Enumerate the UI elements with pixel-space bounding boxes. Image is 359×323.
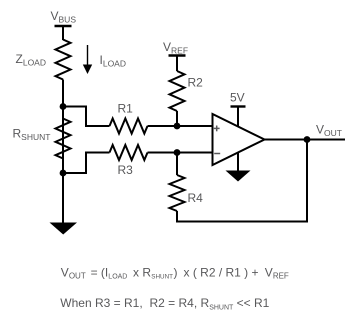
net V_OUT label <box>316 123 342 139</box>
wire feedback R4 to output node <box>177 140 307 222</box>
label 5V <box>230 91 245 105</box>
svg-text:R3: R3 <box>118 163 134 177</box>
net V_REF terminal bar <box>169 54 186 56</box>
wire node B to R3 <box>63 153 110 174</box>
resistor RSHUNT <box>56 119 71 159</box>
op-amp U1 <box>213 114 265 165</box>
label ZLOAD <box>16 52 47 68</box>
wire V_REF to R2 <box>176 56 178 72</box>
ground (op-amp) <box>226 153 251 182</box>
node A (top of RSHUNT) <box>60 103 67 110</box>
wire R3 to op-amp minus input <box>148 152 213 154</box>
formula line 2 <box>60 296 269 311</box>
wire op-amp output <box>265 139 346 141</box>
label R1 <box>118 102 134 116</box>
resistor R2 <box>170 71 185 111</box>
svg-text:VOUT= (ILOADx RSHUNT)x ( R2 /: VOUT= (ILOADx RSHUNT)x ( R2 / R1 ) +VREF <box>61 265 289 280</box>
label R2 <box>188 76 204 90</box>
svg-text:R1: R1 <box>118 102 134 116</box>
svg-text:R2: R2 <box>188 76 204 90</box>
ground <box>50 223 78 235</box>
label ILOAD <box>100 53 127 69</box>
wire R2 to plus node <box>176 111 178 126</box>
resistor R4 <box>170 175 185 211</box>
label R3 <box>118 163 134 177</box>
net V_BUS terminal bar <box>55 25 72 27</box>
resistor ZLOAD <box>56 40 71 80</box>
power 5V pin <box>231 107 246 128</box>
formula line 1 <box>61 265 289 280</box>
wire ZLOAD to ground <box>62 80 64 224</box>
resistor R3 <box>110 145 148 160</box>
node plus-input junction <box>174 123 181 130</box>
label RSHUNT <box>13 127 51 143</box>
svg-text:R4: R4 <box>188 191 204 205</box>
net V_REF label <box>163 40 188 56</box>
svg-text:5V: 5V <box>230 91 245 105</box>
node B (bottom of RSHUNT) <box>60 170 67 177</box>
label R4 <box>188 191 204 205</box>
wire node A to R1 <box>63 107 110 127</box>
svg-text:When R3 = R1,R2 = R4, RSHUNT<<: When R3 = R1,R2 = R4, RSHUNT<< R1 <box>60 296 269 311</box>
wire R1 to op-amp plus input <box>148 125 213 127</box>
resistor R1 <box>110 119 148 134</box>
node minus-input junction <box>174 149 181 156</box>
current arrow ILOAD <box>83 45 92 74</box>
node V_OUT junction <box>304 136 311 143</box>
wire V_BUS to ZLOAD <box>62 26 64 40</box>
net V_BUS label <box>51 9 77 25</box>
wire minus node to R4 <box>176 153 178 176</box>
